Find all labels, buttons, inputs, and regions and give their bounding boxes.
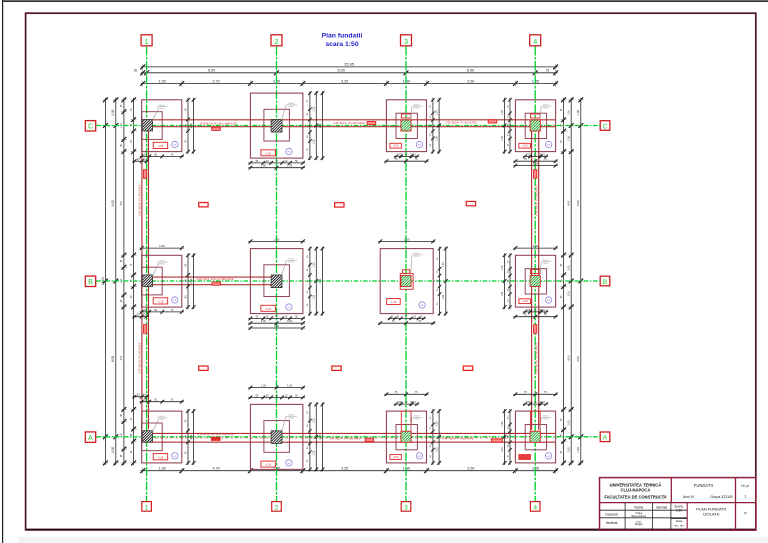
bottom dimension chain xyxy=(141,470,558,472)
svg-text:20: 20 xyxy=(134,69,138,73)
footing B3 elevation label xyxy=(387,299,401,305)
svg-text:1.00: 1.00 xyxy=(435,421,438,426)
axis A left marker xyxy=(85,432,95,442)
footing A2 detail bubble xyxy=(286,460,292,466)
top dimension chain detail xyxy=(141,83,558,85)
footing C3 column callout xyxy=(411,107,412,120)
title block divider horizontal main xyxy=(600,502,756,504)
svg-text:CLUJ-NAPOCA: CLUJ-NAPOCA xyxy=(621,487,651,492)
svg-text:1.00: 1.00 xyxy=(435,110,438,115)
svg-text:GRINDA FUNDARE: GRINDA FUNDARE xyxy=(443,436,474,440)
title block inner table lines xyxy=(600,509,688,511)
svg-text:C: C xyxy=(603,123,608,130)
axis 2 line xyxy=(276,47,278,502)
svg-text:2.00: 2.00 xyxy=(404,237,410,241)
svg-text:-1.05: -1.05 xyxy=(157,455,163,459)
axis A line xyxy=(96,436,600,438)
axis 4 line xyxy=(534,47,536,502)
footing A1 elevation label xyxy=(153,454,168,460)
bay section marker CB-1 xyxy=(199,203,208,207)
footing B2 column section xyxy=(271,275,282,288)
svg-text:1.25: 1.25 xyxy=(313,418,316,423)
svg-text:1.00: 1.00 xyxy=(435,447,438,452)
footing C4 column stub xyxy=(531,114,541,118)
beam section marker A1-2 xyxy=(212,437,221,440)
svg-text:6.00: 6.00 xyxy=(576,356,580,362)
tie beam axis 4 xyxy=(531,131,533,430)
svg-text:scara 1:50: scara 1:50 xyxy=(325,41,358,48)
tie beam row B xyxy=(142,276,271,278)
footing C2 pad xyxy=(250,93,303,158)
axis 2 bottom marker xyxy=(272,502,282,512)
footing A4 elevation label xyxy=(519,455,531,460)
footing B4 local dimensions xyxy=(523,311,548,313)
footing A4 column stub xyxy=(531,411,541,431)
svg-text:dec. -ian: dec. -ian xyxy=(674,524,684,527)
footing B1 column callout xyxy=(152,263,159,277)
svg-text:GRINDA FUNDARE: GRINDA FUNDARE xyxy=(534,184,538,215)
axis A right marker xyxy=(600,432,610,442)
svg-text:1.50: 1.50 xyxy=(533,244,539,248)
axis 3 bottom marker xyxy=(401,502,411,512)
svg-text:4.00: 4.00 xyxy=(567,200,571,206)
top dimension chain total 15.95 xyxy=(141,66,558,68)
footing B2 pad xyxy=(250,249,303,314)
svg-text:1.00: 1.00 xyxy=(261,319,267,323)
svg-text:1.00: 1.00 xyxy=(501,291,504,296)
svg-text:C8/10: C8/10 xyxy=(288,262,295,264)
footing A3 column callout xyxy=(411,418,412,431)
svg-text:GRINDA ECHILIBRARE: GRINDA ECHILIBRARE xyxy=(197,277,234,281)
svg-text:Dragan: Dragan xyxy=(635,523,644,526)
svg-text:-1.05: -1.05 xyxy=(393,144,399,148)
svg-text:1.00: 1.00 xyxy=(111,447,115,453)
svg-text:Data: Data xyxy=(676,519,683,523)
svg-text:1.00: 1.00 xyxy=(567,420,571,426)
svg-text:FUNDATII: FUNDATII xyxy=(694,483,713,488)
svg-text:1: 1 xyxy=(145,504,149,511)
axis 2 top marker xyxy=(271,35,282,46)
beam section marker ax4 BA xyxy=(534,325,537,334)
footing B2 local dimensions xyxy=(248,317,305,319)
svg-text:C8/10: C8/10 xyxy=(159,108,166,110)
top dimension chain axes 5.00 xyxy=(141,72,558,74)
axis B left marker xyxy=(85,276,95,286)
footing C2 column section xyxy=(271,120,282,133)
footing C2 elevation label xyxy=(261,150,276,156)
svg-text:A: A xyxy=(88,435,93,442)
svg-text:C: C xyxy=(88,124,93,131)
footing B1 column section xyxy=(142,275,152,287)
svg-text:1: 1 xyxy=(745,494,747,498)
axis C line xyxy=(96,125,600,127)
svg-text:1.00: 1.00 xyxy=(501,136,504,141)
svg-text:1.25: 1.25 xyxy=(313,106,316,111)
axis 4 bottom marker xyxy=(530,502,540,512)
svg-text:1.55: 1.55 xyxy=(533,162,539,166)
svg-text:1.00: 1.00 xyxy=(501,421,504,426)
footing C3 elevation label xyxy=(390,143,402,148)
svg-text:C8/10: C8/10 xyxy=(288,106,295,108)
footing B4 column stub xyxy=(531,270,541,274)
svg-text:1.00: 1.00 xyxy=(576,447,580,453)
footing B2 step xyxy=(264,265,290,297)
svg-text:Anul IV: Anul IV xyxy=(683,495,695,499)
svg-text:1.25: 1.25 xyxy=(313,450,316,455)
footing B4 step xyxy=(525,269,546,294)
bay section marker BA-2 xyxy=(332,366,341,370)
svg-text:3: 3 xyxy=(404,504,408,511)
svg-text:-1.15: -1.15 xyxy=(265,307,271,311)
svg-text:4.00: 4.00 xyxy=(121,355,123,360)
svg-text:1.00: 1.00 xyxy=(501,447,504,452)
footing B2 column callout xyxy=(282,261,287,276)
svg-text:1.50: 1.50 xyxy=(159,467,166,471)
footing C4 column callout xyxy=(540,107,541,120)
svg-text:1.00: 1.00 xyxy=(287,164,293,168)
title block frame xyxy=(600,478,756,531)
footing C3 step xyxy=(396,113,417,138)
footing B3 detail bubble xyxy=(419,302,425,308)
bay section marker BA-1 xyxy=(199,366,208,370)
footing A2 column callout xyxy=(282,416,287,431)
footing C4 step xyxy=(525,113,546,138)
svg-text:1.50: 1.50 xyxy=(159,79,166,83)
svg-text:-1.05: -1.05 xyxy=(522,144,528,148)
drawing frame bottom accent xyxy=(26,529,756,531)
footing B1 step xyxy=(142,267,163,295)
axis 1 line xyxy=(146,47,148,502)
svg-text:1.00: 1.00 xyxy=(567,110,571,116)
svg-text:1.00: 1.00 xyxy=(111,109,115,115)
footing A2 local dimensions xyxy=(248,396,305,398)
svg-text:C8/10: C8/10 xyxy=(159,419,166,421)
svg-text:4: 4 xyxy=(533,504,537,511)
axis C left marker xyxy=(85,121,95,131)
footing B4 pad xyxy=(515,255,555,307)
svg-text:1.00: 1.00 xyxy=(567,447,571,453)
svg-text:GRINDA FUNDARE: GRINDA FUNDARE xyxy=(138,342,142,373)
svg-text:GRINDA ECHILIBRARE: GRINDA ECHILIBRARE xyxy=(200,121,237,125)
bay section marker BA-3 xyxy=(463,366,472,370)
page left edge line xyxy=(2,0,4,543)
right dimension chain axes xyxy=(580,98,582,465)
title block divider vertical plan cell xyxy=(686,503,688,531)
footing C1 column callout xyxy=(152,108,159,122)
svg-text:2.00: 2.00 xyxy=(190,278,193,283)
svg-text:C8/10: C8/10 xyxy=(414,256,421,258)
footing B2 elevation label xyxy=(261,305,276,311)
footing C3 detail bubble xyxy=(416,141,422,147)
svg-text:2.00: 2.00 xyxy=(190,123,193,128)
svg-text:Desenat: Desenat xyxy=(605,512,617,516)
footing C4 local dimensions xyxy=(523,155,548,157)
svg-text:GRINDA FUNDARE: GRINDA FUNDARE xyxy=(534,342,538,373)
footing A3 pad xyxy=(386,411,426,463)
svg-text:1:50: 1:50 xyxy=(676,509,682,513)
svg-text:1.25: 1.25 xyxy=(313,262,316,267)
footing B4 elevation label xyxy=(519,299,531,304)
footing C1 elevation label xyxy=(153,142,168,148)
svg-text:3: 3 xyxy=(404,37,408,46)
footing A3 elevation label xyxy=(390,455,402,460)
svg-text:6.00: 6.00 xyxy=(576,200,580,206)
svg-text:3.25: 3.25 xyxy=(341,79,348,83)
bay section marker CB-2 xyxy=(335,203,344,207)
svg-text:C8/10: C8/10 xyxy=(543,263,550,265)
footing A1 local dimensions xyxy=(140,401,184,403)
svg-text:GRINDA ECHILIBRARE: GRINDA ECHILIBRARE xyxy=(197,432,234,436)
svg-text:C8/10: C8/10 xyxy=(288,418,295,420)
svg-text:1.00: 1.00 xyxy=(567,136,571,142)
svg-text:GRINDA FUNDARE: GRINDA FUNDARE xyxy=(446,120,477,124)
svg-text:15.95: 15.95 xyxy=(344,61,355,66)
svg-text:5.00: 5.00 xyxy=(467,69,474,73)
svg-text:3.25: 3.25 xyxy=(341,467,348,471)
axis 4 top marker xyxy=(530,35,541,46)
svg-text:-1.15: -1.15 xyxy=(157,300,163,304)
svg-text:1: 1 xyxy=(145,37,149,46)
svg-text:2.00: 2.00 xyxy=(190,434,193,439)
svg-text:1.00: 1.00 xyxy=(261,384,267,388)
svg-text:2: 2 xyxy=(275,37,279,46)
svg-text:1.00: 1.00 xyxy=(287,384,293,388)
footing A1 detail bubble xyxy=(172,453,178,459)
svg-text:-1.05: -1.05 xyxy=(157,144,163,148)
svg-text:Nume: Nume xyxy=(634,505,643,509)
svg-text:4.00: 4.00 xyxy=(121,200,123,205)
beam section marker A2-3 xyxy=(365,438,374,441)
left dimension chain hatch detail xyxy=(133,98,135,465)
svg-text:5.00: 5.00 xyxy=(208,69,215,73)
svg-text:2.50: 2.50 xyxy=(319,434,322,439)
svg-text:GRINDA FUNDARE: GRINDA FUNDARE xyxy=(334,121,365,125)
left dimension chain axes xyxy=(115,98,117,465)
svg-text:1.00: 1.00 xyxy=(567,291,571,297)
footing C1 step xyxy=(142,112,163,140)
svg-text:FACULTATEA DE CONSTRUCȚII: FACULTATEA DE CONSTRUCȚII xyxy=(604,494,666,499)
axis 3 line xyxy=(405,47,407,502)
svg-text:C8/10: C8/10 xyxy=(414,107,421,109)
tie beam row C xyxy=(142,119,556,121)
tie beam axis 1 xyxy=(141,131,143,430)
svg-text:1.00: 1.00 xyxy=(442,294,445,299)
footing B1 pad xyxy=(142,255,182,307)
footing A4 step xyxy=(525,425,546,450)
footing B3 column callout xyxy=(411,256,412,275)
footing A2 pad xyxy=(250,404,303,469)
tie beam row A xyxy=(142,432,556,434)
beam section marker B1-2 xyxy=(212,282,221,285)
svg-text:2: 2 xyxy=(275,504,279,511)
svg-text:C8/10: C8/10 xyxy=(159,263,166,265)
svg-text:1.00: 1.00 xyxy=(435,136,438,141)
footing C2 local dimensions xyxy=(248,162,305,164)
beam section marker ax1 BA xyxy=(144,325,147,334)
footing C1 local dimensions xyxy=(140,155,184,157)
svg-text:-1.15: -1.15 xyxy=(522,299,528,303)
footing B1 local dimensions xyxy=(140,311,184,313)
svg-text:3.50: 3.50 xyxy=(467,79,474,83)
footing B3 local dimensions xyxy=(388,317,426,319)
svg-text:A: A xyxy=(603,435,608,442)
svg-text:3.50: 3.50 xyxy=(467,467,474,471)
svg-text:4.70: 4.70 xyxy=(213,467,220,471)
footing A3 step xyxy=(396,425,417,450)
axis 3 top marker xyxy=(401,35,412,46)
svg-text:1.00: 1.00 xyxy=(261,164,267,168)
footing A4 pad xyxy=(515,411,555,463)
svg-text:2.00: 2.00 xyxy=(274,324,280,328)
footing C4 pad xyxy=(515,100,555,152)
footing B2 detail bubble xyxy=(286,304,292,310)
svg-text:1.00: 1.00 xyxy=(287,319,293,323)
svg-text:1.00: 1.00 xyxy=(501,265,504,270)
footing A1 step xyxy=(142,423,163,451)
axis 1 top marker xyxy=(141,35,152,46)
footing C1 column section xyxy=(142,119,152,130)
svg-text:-1.15: -1.15 xyxy=(390,300,396,304)
footing B3 column box xyxy=(400,273,413,289)
svg-text:1.25: 1.25 xyxy=(313,139,316,144)
svg-text:Grupa 3231/B: Grupa 3231/B xyxy=(710,495,733,499)
footing C3 local dimensions xyxy=(394,155,419,157)
svg-text:B: B xyxy=(603,279,608,286)
page bottom scan strip xyxy=(18,537,768,543)
svg-text:C8/10: C8/10 xyxy=(543,107,550,109)
footing A4 local dimensions xyxy=(523,403,548,405)
footing A3 column stub xyxy=(401,411,411,431)
axis 1 bottom marker xyxy=(142,502,152,512)
svg-text:2.70: 2.70 xyxy=(213,79,220,83)
footing B4 detail bubble xyxy=(545,297,551,303)
footing A3 local dimensions xyxy=(394,403,419,405)
svg-text:-1.05: -1.05 xyxy=(393,455,399,459)
svg-text:-1.05: -1.05 xyxy=(265,463,271,467)
footing C1 pad xyxy=(142,100,182,152)
svg-text:IZOLATE: IZOLATE xyxy=(703,512,720,517)
footing B4 column callout xyxy=(540,263,541,276)
svg-text:1.00: 1.00 xyxy=(576,109,580,115)
svg-text:1.00: 1.00 xyxy=(442,262,445,267)
footing B3 pad xyxy=(380,249,433,314)
footing C4 detail bubble xyxy=(545,141,551,147)
title block divider vertical nrpl xyxy=(735,478,737,531)
svg-text:Bancu-Daniel: Bancu-Daniel xyxy=(632,515,647,518)
bay section marker CB-3 xyxy=(466,201,475,205)
footing A2 step xyxy=(264,421,290,453)
beam section marker A3-4 xyxy=(491,439,502,442)
footing A4 detail bubble xyxy=(545,453,551,459)
svg-text:B: B xyxy=(88,279,93,286)
page top edge line xyxy=(2,0,768,2)
svg-text:75: 75 xyxy=(546,69,550,73)
svg-text:6.00: 6.00 xyxy=(111,200,115,206)
footing A4 column callout xyxy=(540,418,541,431)
footing C2 detail bubble xyxy=(286,148,292,154)
footing A2 column section xyxy=(271,431,282,444)
svg-text:6.00: 6.00 xyxy=(111,356,115,362)
svg-text:Nr. pl.: Nr. pl. xyxy=(741,484,749,488)
svg-text:GRINDA FUNDARE: GRINDA FUNDARE xyxy=(330,436,361,440)
svg-text:1.25: 1.25 xyxy=(313,294,316,299)
svg-text:4: 4 xyxy=(533,37,537,46)
left dimension chain total xyxy=(104,98,106,465)
footing C3 pad xyxy=(386,100,426,152)
footing B1 elevation label xyxy=(153,298,168,304)
axis B right marker xyxy=(600,276,610,286)
svg-text:GRINDA FUNDARE: GRINDA FUNDARE xyxy=(138,184,142,215)
svg-text:1.00: 1.00 xyxy=(501,110,504,115)
right dimension chain bays xyxy=(570,98,572,465)
footing A1 pad xyxy=(142,411,182,463)
beam section marker C2-3 xyxy=(367,122,376,125)
footing A3 detail bubble xyxy=(416,453,422,459)
svg-text:1.50: 1.50 xyxy=(159,244,165,248)
svg-text:-1.05: -1.05 xyxy=(522,455,528,459)
footing A1 column callout xyxy=(152,419,159,433)
axis C right marker xyxy=(600,121,610,131)
svg-text:-1.05: -1.05 xyxy=(265,151,271,155)
svg-text:1.00: 1.00 xyxy=(567,265,571,271)
svg-text:4.00: 4.00 xyxy=(567,355,571,361)
axis B line xyxy=(96,280,600,282)
left dimension chain step detail xyxy=(123,98,125,465)
footing A2 elevation label xyxy=(261,461,276,467)
beam section marker ax1 CB xyxy=(144,170,147,179)
svg-text:2.50: 2.50 xyxy=(319,278,322,283)
svg-text:Plan fundatii: Plan fundatii xyxy=(322,33,363,40)
footing C2 column callout xyxy=(282,105,287,120)
beam section marker ax4 CB xyxy=(534,170,537,179)
beam section marker C1-2 xyxy=(212,127,221,130)
footing C2 step xyxy=(264,109,290,141)
footing A1 column section xyxy=(142,431,152,443)
svg-text:2.50: 2.50 xyxy=(319,123,322,128)
svg-text:C8/10: C8/10 xyxy=(414,419,421,421)
svg-text:5.00: 5.00 xyxy=(338,69,345,73)
right dimension chain hatch detail xyxy=(563,98,565,465)
svg-text:2.00: 2.00 xyxy=(274,237,280,241)
svg-text:C8/10: C8/10 xyxy=(543,419,550,421)
svg-text:Verificat: Verificat xyxy=(606,521,618,525)
footing C3 column stub xyxy=(401,114,411,118)
svg-text:Semnat: Semnat xyxy=(656,505,667,509)
footing C4 elevation label xyxy=(519,143,531,148)
footing B1 detail bubble xyxy=(172,297,178,303)
beam section marker C3-4 xyxy=(488,120,497,123)
title block divider vertical univ xyxy=(670,478,672,503)
footing C1 detail bubble xyxy=(172,141,178,147)
